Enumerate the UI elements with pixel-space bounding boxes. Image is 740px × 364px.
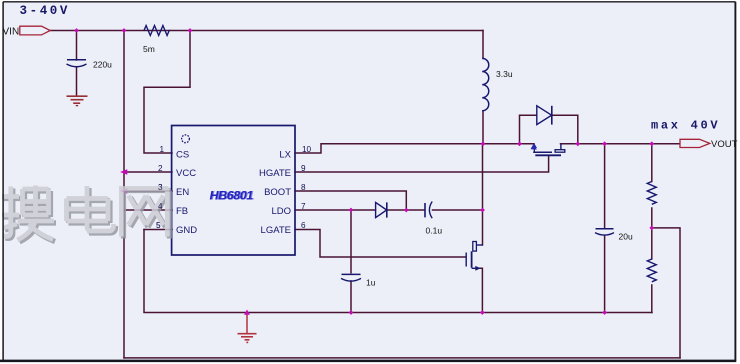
svg-text:20u: 20u (619, 232, 633, 242)
svg-text:HGATE: HGATE (259, 168, 291, 179)
svg-text:220u: 220u (93, 60, 112, 70)
svg-text:LGATE: LGATE (261, 225, 291, 236)
svg-text:5m: 5m (143, 44, 155, 54)
svg-text:9: 9 (301, 164, 306, 173)
svg-text:VCC: VCC (176, 168, 196, 179)
svg-text:3: 3 (158, 183, 163, 192)
svg-text:max 40V: max 40V (651, 118, 720, 132)
svg-text:5: 5 (156, 221, 161, 230)
svg-text:VIN: VIN (3, 27, 20, 38)
svg-text:1u: 1u (366, 278, 376, 288)
svg-text:4: 4 (158, 202, 163, 211)
svg-text:EN: EN (176, 187, 189, 198)
svg-text:CS: CS (176, 149, 189, 160)
svg-text:FB: FB (176, 206, 188, 217)
svg-text:10: 10 (302, 145, 312, 154)
svg-text:GND: GND (176, 225, 197, 236)
svg-text:3-40V: 3-40V (20, 4, 71, 18)
svg-text:BOOT: BOOT (264, 187, 291, 198)
svg-text:HB6801: HB6801 (210, 189, 254, 203)
svg-text:2: 2 (158, 164, 163, 173)
svg-text:0.1u: 0.1u (426, 226, 443, 236)
svg-text:VOUT: VOUT (711, 139, 738, 150)
svg-text:3.3u: 3.3u (496, 69, 513, 79)
svg-text:6: 6 (301, 221, 306, 230)
svg-text:LX: LX (279, 149, 291, 160)
svg-text:LDO: LDO (271, 206, 291, 217)
svg-text:7: 7 (301, 202, 306, 211)
svg-text:1: 1 (159, 145, 164, 154)
svg-text:8: 8 (301, 183, 306, 192)
